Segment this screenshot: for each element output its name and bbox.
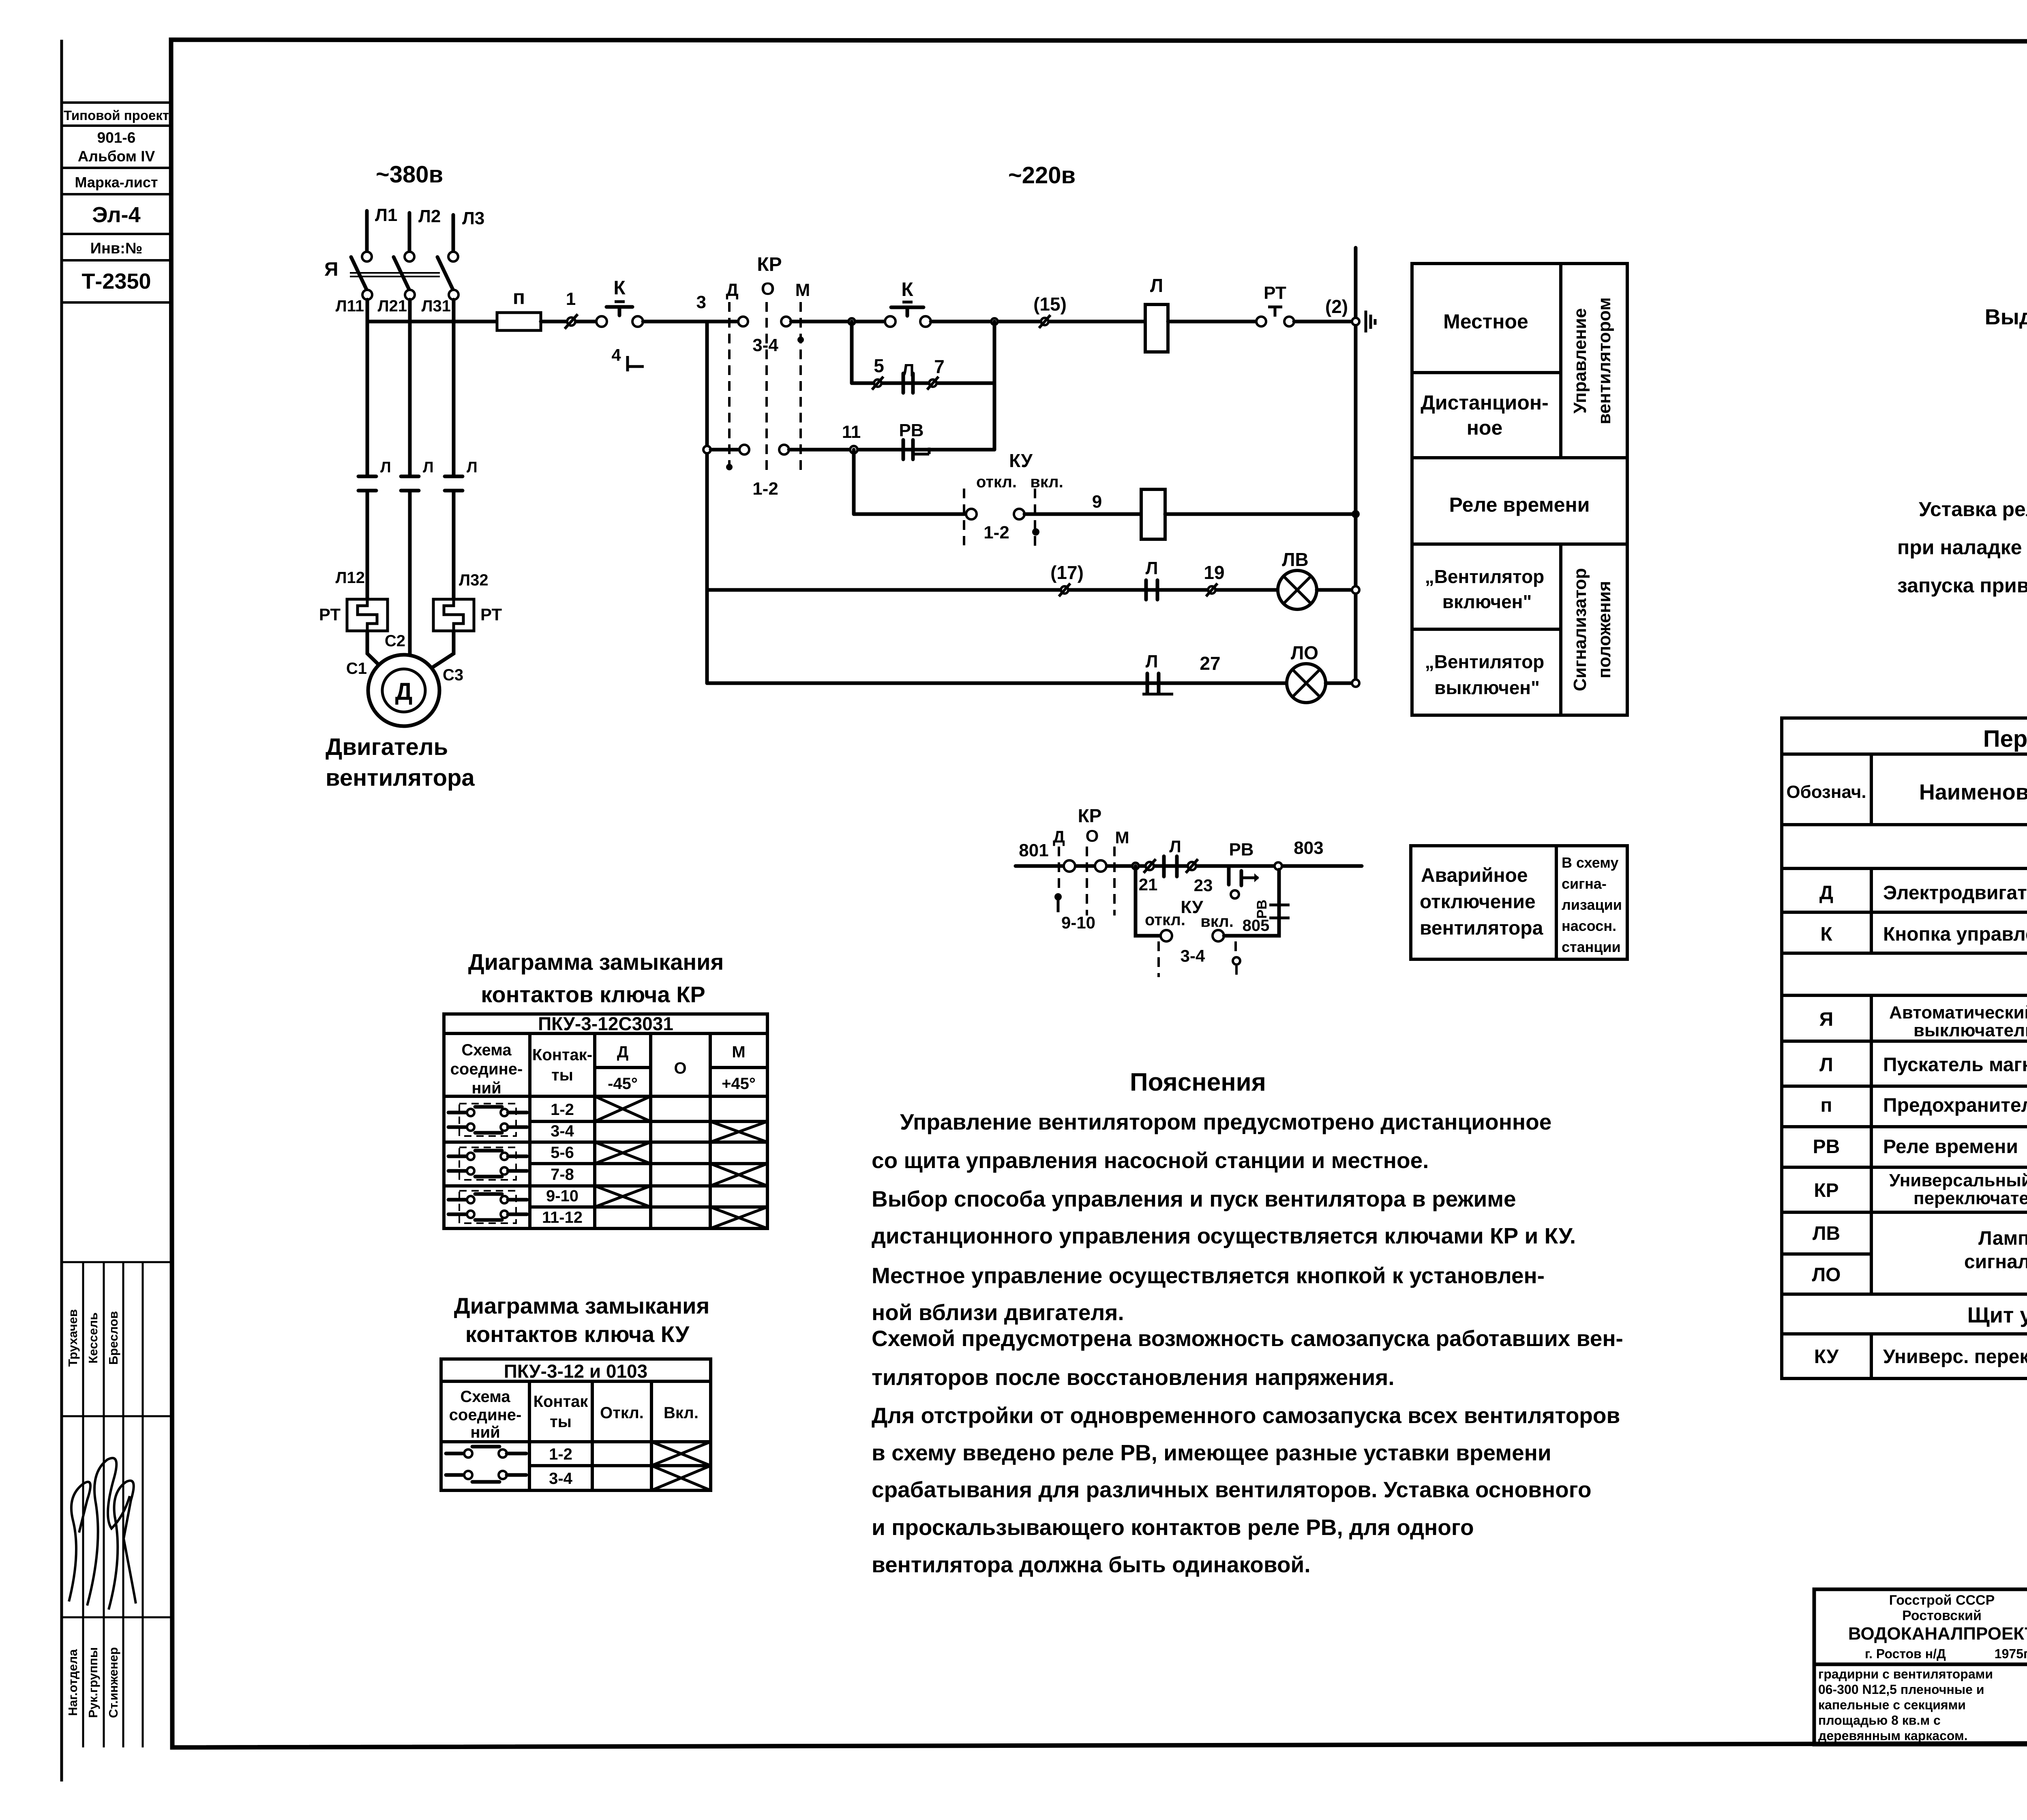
- svg-text:06-300 N12,5 пленочные и: 06-300 N12,5 пленочные и: [1818, 1682, 1984, 1697]
- svg-text:Откл.: Откл.: [600, 1404, 644, 1422]
- svg-text:Двигатель: Двигатель: [326, 734, 448, 760]
- svg-text:ное: ное: [1467, 416, 1503, 439]
- svg-text:Бреслов: Бреслов: [106, 1311, 120, 1365]
- stamp texts: [64, 108, 169, 294]
- svg-text:Схема: Схема: [461, 1041, 512, 1059]
- svg-text:Обознач.: Обознач.: [1786, 782, 1866, 802]
- rotated Signalizator polozheniya: [1570, 568, 1614, 691]
- svg-text:контактов ключа КУ: контактов ключа КУ: [465, 1321, 690, 1347]
- wire mark (17): [1050, 562, 1084, 596]
- svg-text:сигнальная: сигнальная: [1964, 1251, 2027, 1273]
- breaker Ya upper terminals: [362, 252, 372, 262]
- svg-text:Вкл.: Вкл.: [664, 1404, 699, 1422]
- svg-text:Л2: Л2: [418, 206, 441, 226]
- wire mark (15): [1033, 294, 1067, 328]
- svg-text:Л12: Л12: [335, 569, 365, 587]
- svg-text:дистанционного управления осущ: дистанционного управления осуществляется…: [872, 1223, 1576, 1248]
- relay coil RV: [1141, 489, 1165, 539]
- svg-text:Пояснения: Пояснения: [1130, 1068, 1266, 1096]
- svg-text:переключатель: переключатель: [1913, 1188, 2027, 1208]
- svg-text:Выдержки времени реле „1÷2-РВ": Выдержки времени реле „1÷2-РВ": [1985, 305, 2027, 329]
- svg-text:КР: КР: [1078, 805, 1102, 826]
- KU dash vkl with circle: [1233, 941, 1240, 975]
- svg-text:3-4: 3-4: [551, 1122, 574, 1140]
- svg-text:1-2: 1-2: [984, 523, 1009, 542]
- wire mark 21: [1139, 859, 1158, 894]
- svg-text:О: О: [674, 1059, 686, 1077]
- svg-text:1-2: 1-2: [549, 1445, 572, 1463]
- svg-text:27: 27: [1200, 653, 1220, 674]
- svg-text:Контак: Контак: [534, 1393, 589, 1411]
- wire phase L2 drop: [408, 300, 412, 476]
- emergency row wire: [1016, 864, 1362, 868]
- wire branch down from junction: [850, 322, 854, 383]
- KU connection glyph: [446, 1447, 526, 1482]
- junction node: [849, 318, 855, 325]
- svg-text:РВ: РВ: [1813, 1136, 1840, 1158]
- svg-text:Л11: Л11: [336, 297, 364, 315]
- motor caption: [326, 734, 475, 791]
- svg-text:Я: Я: [324, 259, 339, 280]
- contact L aux emergency: [1164, 837, 1181, 877]
- wire fuse to contact 1: [541, 320, 567, 324]
- wire up with RV contact: [1224, 870, 1290, 936]
- KR position dash O: [1086, 847, 1088, 915]
- svg-text:КУ: КУ: [1181, 897, 1203, 917]
- svg-text:„Вентилятор: „Вентилятор: [1425, 651, 1545, 672]
- svg-text:801: 801: [1019, 840, 1048, 860]
- svg-text:КР: КР: [1814, 1180, 1838, 1201]
- svg-text:п: п: [513, 286, 525, 309]
- svg-text:п: п: [1821, 1095, 1832, 1116]
- bus node LO: [1352, 680, 1359, 687]
- bus node LV: [1352, 586, 1359, 594]
- sheet link mark: [1366, 311, 1375, 332]
- svg-text:КУ: КУ: [1814, 1346, 1839, 1368]
- lamp LO row wire: [707, 682, 1287, 685]
- wire mark 7: [927, 356, 945, 390]
- svg-text:С3: С3: [443, 666, 463, 684]
- emergency label box: [1411, 846, 1627, 959]
- svg-text:К: К: [901, 279, 913, 300]
- svg-text:Инв:№: Инв:№: [90, 240, 143, 257]
- button K linkage mark 4: [611, 345, 644, 371]
- KU contact row labels: [549, 1445, 573, 1488]
- svg-text:Выбор способа управления и пус: Выбор способа управления и пуск вентилят…: [872, 1186, 1516, 1211]
- KR 9-10 terminals: [1064, 860, 1075, 872]
- KR 1-2 closed-in-D dot: [726, 464, 733, 470]
- row P fuse: [1821, 1095, 2027, 1116]
- KR connection glyph 3: [448, 1191, 527, 1223]
- svg-text:Дистанцион-: Дистанцион-: [1421, 391, 1549, 414]
- svg-text:5: 5: [874, 355, 884, 376]
- svg-text:М: М: [1115, 828, 1129, 847]
- svg-text:-45°: -45°: [608, 1075, 638, 1093]
- KR X marks D column: [595, 1096, 651, 1207]
- key KR position line D: [726, 280, 738, 474]
- KU position dash vkl: [1032, 489, 1039, 548]
- svg-text:запуска привода.: запуска привода.: [1897, 574, 2027, 597]
- KU X marks Vkl column: [651, 1442, 711, 1490]
- svg-text:РТ: РТ: [319, 605, 341, 624]
- lamp LV row wire: [707, 588, 1278, 592]
- node 11: [842, 422, 861, 453]
- svg-text:площадью 8 кв.м с: площадью 8 кв.м с: [1818, 1713, 1941, 1728]
- svg-text:Ростовский: Ростовский: [1902, 1608, 1982, 1623]
- svg-text:Лампа: Лампа: [1978, 1228, 2027, 1249]
- svg-text:Альбом IV: Альбом IV: [78, 148, 155, 165]
- KR 3-4 closed-in-M dot: [797, 337, 804, 343]
- signature titles rotated: [66, 1647, 120, 1718]
- KR contact 3-4 terminals: [738, 317, 748, 326]
- svg-text:Д: Д: [1819, 882, 1833, 904]
- junction node 803: [1275, 838, 1324, 870]
- svg-text:3-4: 3-4: [549, 1470, 573, 1488]
- svg-text:вентилятора: вентилятора: [326, 765, 475, 791]
- wire phase L3 stub: [452, 215, 455, 251]
- svg-text:Схема: Схема: [460, 1388, 510, 1406]
- KR position dash D: [1054, 847, 1062, 912]
- stamp column boxes: [62, 103, 171, 302]
- svg-text:Ст.инженер: Ст.инженер: [106, 1647, 120, 1718]
- branch down wire: [1136, 866, 1160, 936]
- wire branch 11 down: [852, 450, 856, 514]
- contact L aux LO (NC): [1142, 652, 1173, 694]
- lamp LV: [1278, 549, 1317, 609]
- wire mark 5: [872, 355, 884, 390]
- svg-text:1-2: 1-2: [551, 1101, 574, 1119]
- svg-text:РВ: РВ: [899, 420, 924, 440]
- bus junction node: [1352, 318, 1359, 325]
- svg-text:Для отстройки от одновременног: Для отстройки от одновременного самозапу…: [872, 1403, 1620, 1428]
- svg-text:капельные с секциями: капельные с секциями: [1818, 1698, 1966, 1712]
- svg-text:ний: ний: [470, 1423, 500, 1441]
- svg-text:1-2: 1-2: [752, 479, 778, 499]
- wire L coil to RT contact: [1168, 320, 1256, 324]
- svg-text:Реле времени: Реле времени: [1883, 1136, 2018, 1158]
- KR contact 1-2 row: [711, 445, 994, 454]
- note text: [1897, 498, 2027, 597]
- rows LV LO lamps: [1812, 1216, 2027, 1292]
- svg-text:4: 4: [611, 345, 621, 364]
- svg-text:ЛВ: ЛВ: [1813, 1223, 1840, 1244]
- svg-text:9-10: 9-10: [546, 1187, 579, 1205]
- signature scribbles: [69, 1458, 136, 1610]
- wire phase2 to motor: [408, 491, 412, 656]
- title block frame: [1814, 1589, 2027, 1745]
- KU diagram table frame: [441, 1359, 711, 1490]
- wire phase L2 stub: [408, 213, 411, 251]
- svg-text:откл.: откл.: [976, 473, 1017, 491]
- svg-text:РВ: РВ: [1229, 840, 1253, 860]
- svg-text:Диаграмма замыкания: Диаграмма замыкания: [454, 1293, 710, 1318]
- svg-text:Электродвигатель: Электродвигатель: [1883, 882, 2027, 904]
- wire K to bus: [643, 320, 707, 324]
- svg-text:Госстрой СССР: Госстрой СССР: [1889, 1593, 1995, 1608]
- svg-text:Универсальный: Универсальный: [1889, 1170, 2027, 1190]
- svg-text:21: 21: [1139, 875, 1158, 894]
- svg-text:выключатель: выключатель: [1913, 1020, 2027, 1040]
- svg-text:Кессель: Кессель: [86, 1312, 100, 1363]
- svg-text:5-6: 5-6: [551, 1144, 574, 1162]
- svg-text:Д: Д: [617, 1043, 629, 1061]
- svg-text:ПКУ-3-12С3031: ПКУ-3-12С3031: [538, 1013, 673, 1034]
- svg-text:Управление вентилятором предус: Управление вентилятором предусмотрено ди…: [900, 1109, 1551, 1134]
- svg-text:срабатывания для различных вен: срабатывания для различных вентиляторов.…: [872, 1477, 1592, 1502]
- row L contactor: [1819, 1047, 2027, 1084]
- KR contact 3-4 row wire left: [707, 320, 738, 324]
- svg-text:Я: Я: [1819, 1009, 1834, 1030]
- svg-text:сигна-: сигна-: [1562, 875, 1607, 892]
- KR position dash M: [1113, 847, 1116, 915]
- svg-text:деревянным каркасом.: деревянным каркасом.: [1818, 1728, 1968, 1743]
- rotated Upravlenie ventilatorom: [1570, 297, 1614, 424]
- header row cells: [1786, 764, 2027, 813]
- wire mark 19: [1204, 562, 1224, 596]
- svg-text:в схему введено реле РВ, имеющ: в схему введено реле РВ, имеющее разные …: [872, 1440, 1551, 1465]
- cell Distancionnoe: [1421, 391, 1549, 439]
- svg-text:Местное: Местное: [1443, 310, 1528, 333]
- bus junction dot: [1352, 510, 1360, 518]
- row K button: [1820, 918, 2027, 952]
- KR contact row labels: [542, 1101, 583, 1226]
- contact L aux LV: [1146, 558, 1158, 600]
- wire 3-4 to junction: [791, 320, 890, 324]
- svg-text:Уставка реле времени „1÷2-РВ": Уставка реле времени „1÷2-РВ" уточняется: [1919, 498, 2027, 521]
- svg-text:вентилятора должна быть одинак: вентилятора должна быть одинаковой.: [872, 1552, 1311, 1577]
- contact RV delayed: [1229, 840, 1259, 898]
- svg-text:КУ: КУ: [1009, 450, 1033, 471]
- svg-text:7-8: 7-8: [551, 1166, 574, 1183]
- svg-text:О: О: [1086, 826, 1099, 845]
- motor D: [368, 655, 439, 726]
- svg-text:соедине-: соедине-: [450, 1060, 523, 1078]
- svg-text:Эл-4: Эл-4: [92, 203, 140, 227]
- svg-text:станции: станции: [1562, 939, 1621, 955]
- svg-text:Местное управление осуществляе: Местное управление осуществляется кнопко…: [872, 1263, 1545, 1288]
- outer margin line: [60, 40, 63, 1781]
- wire RT to bus, mark (2): [1294, 296, 1356, 322]
- thermal relay RT heater 1: [319, 599, 388, 631]
- svg-text:контактов ключа КР: контактов ключа КР: [481, 982, 705, 1007]
- svg-text:ты: ты: [551, 1066, 573, 1084]
- svg-text:Реле времени: Реле времени: [1449, 493, 1590, 516]
- svg-text:Диаграмма замыкания: Диаграмма замыкания: [468, 949, 724, 975]
- self-hold row wire: [852, 382, 994, 385]
- svg-text:7: 7: [934, 356, 945, 377]
- button K (local): [596, 277, 643, 327]
- KR diagram table frame: [444, 1014, 767, 1228]
- svg-text:вентилятора: вентилятора: [1420, 918, 1543, 939]
- svg-text:Схемой предусмотрена возможнос: Схемой предусмотрена возможность самозап…: [872, 1326, 1623, 1351]
- left bus wire: [705, 322, 709, 683]
- cell Ventilator vyklyuchen: [1425, 651, 1545, 698]
- KU header cells: [449, 1388, 699, 1441]
- svg-text:соедине-: соедине-: [449, 1406, 522, 1424]
- svg-text:отключение: отключение: [1420, 891, 1536, 913]
- svg-text:откл.: откл.: [1145, 911, 1185, 929]
- svg-text:со щита управления насосной ст: со щита управления насосной станции и ме…: [872, 1148, 1429, 1173]
- svg-text:РТ: РТ: [1264, 283, 1286, 303]
- svg-text:Л32: Л32: [459, 571, 489, 589]
- svg-text:ВОДОКАНАЛПРОЕКТ: ВОДОКАНАЛПРОЕКТ: [1848, 1624, 2027, 1644]
- svg-text:803: 803: [1294, 838, 1323, 858]
- svg-text:градирни с вентиляторами: градирни с вентиляторами: [1818, 1667, 1993, 1681]
- svg-text:Типовой проект: Типовой проект: [64, 108, 169, 123]
- svg-text:при наладке в зависимости от в: при наладке в зависимости от времени: [1897, 536, 2027, 559]
- wire RT2 to motor C3: [427, 631, 454, 671]
- svg-text:~380в: ~380в: [376, 161, 443, 188]
- KR connection glyph 1: [448, 1104, 527, 1136]
- svg-text:Д: Д: [395, 678, 413, 705]
- svg-text:Л: Л: [1819, 1054, 1833, 1076]
- svg-text:ты: ты: [550, 1413, 572, 1431]
- svg-text:Наг.отдела: Наг.отдела: [66, 1649, 80, 1716]
- svg-text:Д: Д: [726, 280, 738, 300]
- svg-text:Л: Л: [423, 459, 434, 476]
- svg-text:~220в: ~220в: [1008, 162, 1076, 189]
- svg-text:Трухачев: Трухачев: [66, 1309, 80, 1367]
- svg-text:11-12: 11-12: [542, 1209, 583, 1226]
- wire phase L1 drop: [366, 300, 369, 476]
- wire phase L3 drop: [452, 300, 456, 476]
- svg-text:Л31: Л31: [421, 297, 451, 315]
- signature names rotated: [66, 1309, 120, 1367]
- svg-text:вкл.: вкл.: [1030, 473, 1063, 491]
- wire KU to RV coil, node 9: [1024, 492, 1141, 514]
- svg-text:лизации: лизации: [1562, 896, 1622, 913]
- svg-text:М: М: [732, 1043, 745, 1061]
- object description: [1818, 1667, 1993, 1743]
- svg-text:Л: Л: [1169, 837, 1181, 856]
- svg-text:К: К: [613, 277, 626, 299]
- svg-text:9-10: 9-10: [1061, 913, 1095, 932]
- KU position dash otkl: [963, 489, 965, 545]
- svg-text:выключен": выключен": [1434, 677, 1540, 698]
- org box: [1848, 1593, 2027, 1661]
- signature block: [62, 1262, 171, 1747]
- row KU switch: [1814, 1339, 2027, 1376]
- contactor L main contact phase1: [358, 476, 376, 491]
- svg-text:ПКУ-3-12 и 0103: ПКУ-3-12 и 0103: [504, 1361, 647, 1382]
- svg-text:г. Ростов н/Д: г. Ростов н/Д: [1865, 1646, 1946, 1661]
- breaker Ya lower terminals: [362, 290, 372, 300]
- KR connection glyph 2: [448, 1147, 527, 1180]
- svg-text:РТ: РТ: [480, 605, 502, 624]
- svg-text:Л: Л: [1150, 275, 1163, 296]
- contactor coil L: [1145, 275, 1168, 352]
- wire lamp LV to bus: [1317, 588, 1356, 592]
- svg-text:Л: Л: [1146, 558, 1158, 578]
- wire to button K: [576, 320, 596, 324]
- svg-text:3-4: 3-4: [752, 335, 778, 355]
- svg-text:1: 1: [566, 289, 576, 309]
- svg-text:вкл.: вкл.: [1200, 913, 1234, 930]
- svg-text:Контак-: Контак-: [532, 1046, 592, 1064]
- svg-text:Л: Л: [902, 360, 915, 380]
- svg-text:19: 19: [1204, 562, 1224, 583]
- lamp LO: [1287, 642, 1326, 703]
- explanations text: [872, 1109, 1623, 1577]
- KR contact 1-2 bus node: [703, 446, 711, 453]
- function table frame: [1412, 264, 1627, 715]
- svg-text:С1: С1: [346, 660, 367, 677]
- row D motor: [1819, 882, 2027, 904]
- svg-text:тиляторов после восстановления: тиляторов после восстановления напряжени…: [872, 1365, 1395, 1390]
- thermal relay RT heater 2: [433, 599, 502, 631]
- KR X marks M column: [710, 1121, 767, 1228]
- svg-text:Сигнализатор: Сигнализатор: [1570, 568, 1590, 691]
- row RV time relay: [1813, 1136, 2027, 1160]
- KR positions D O M: [1053, 826, 1129, 847]
- wire mark 23: [1186, 859, 1213, 895]
- svg-text:Л21: Л21: [377, 297, 407, 315]
- junction after K: [991, 318, 998, 325]
- svg-text:+45°: +45°: [722, 1075, 756, 1093]
- RV coil row wire left: [854, 512, 966, 516]
- svg-text:Л: Л: [380, 459, 391, 476]
- contact RV slipping: [899, 420, 929, 459]
- svg-text:Наименование: Наименование: [1919, 780, 2027, 804]
- wire RT1 to motor C1: [367, 631, 384, 670]
- svg-text:О: О: [761, 279, 775, 299]
- row KR switch: [1814, 1170, 2027, 1210]
- svg-text:(17): (17): [1050, 562, 1084, 583]
- emergency label text: [1420, 865, 1543, 939]
- svg-text:ной вблизи двигателя.: ной вблизи двигателя.: [872, 1300, 1124, 1325]
- contactor L main contact phase2: [401, 476, 419, 491]
- destination label text: [1562, 854, 1622, 955]
- svg-text:КР: КР: [757, 254, 782, 275]
- svg-text:(2): (2): [1325, 296, 1348, 317]
- contactor L main contact phase3: [445, 476, 463, 491]
- key KR position line M: [795, 280, 810, 474]
- wire K to L coil: [931, 320, 1145, 324]
- svg-text:Д: Д: [1053, 827, 1065, 846]
- svg-text:С2: С2: [385, 632, 405, 650]
- svg-text:Управление: Управление: [1570, 308, 1590, 414]
- right bus wire: [1354, 248, 1358, 683]
- wire main row to fuse: [367, 320, 497, 324]
- svg-text:3: 3: [696, 292, 706, 312]
- svg-text:(15): (15): [1033, 294, 1067, 315]
- KU diagram title: [454, 1293, 710, 1347]
- KR header cells: [450, 1041, 756, 1097]
- button K remote: [885, 279, 931, 327]
- svg-text:М: М: [795, 280, 810, 300]
- svg-text:включен": включен": [1442, 591, 1532, 612]
- wire phase1 to RT: [366, 491, 369, 599]
- svg-text:и проскальзывающего контактов: и проскальзывающего контактов реле РВ, д…: [872, 1515, 1474, 1540]
- equipment list table frame: [1782, 718, 2027, 1378]
- svg-text:Автоматический: Автоматический: [1889, 1003, 2027, 1023]
- contact labels L: [380, 459, 478, 476]
- svg-text:23: 23: [1194, 876, 1213, 895]
- svg-text:Кнопка управления: Кнопка управления: [1883, 924, 2027, 945]
- fuse P: [497, 286, 541, 330]
- wire right vertical to row2: [993, 322, 996, 450]
- svg-text:Предохранитель: Предохранитель: [1883, 1095, 2027, 1116]
- contact L aux (self hold): [902, 360, 915, 393]
- svg-text:Аварийное: Аварийное: [1421, 865, 1528, 886]
- KU dash 3-4: [1159, 941, 1205, 977]
- svg-text:3-4: 3-4: [1181, 946, 1205, 965]
- svg-text:Т-2350: Т-2350: [81, 269, 151, 294]
- svg-text:Марка-лист: Марка-лист: [75, 174, 158, 191]
- svg-text:Л: Л: [1146, 652, 1158, 671]
- cell Ventilator vklyuchen: [1425, 566, 1545, 612]
- svg-text:Рук.группы: Рук.группы: [86, 1647, 100, 1718]
